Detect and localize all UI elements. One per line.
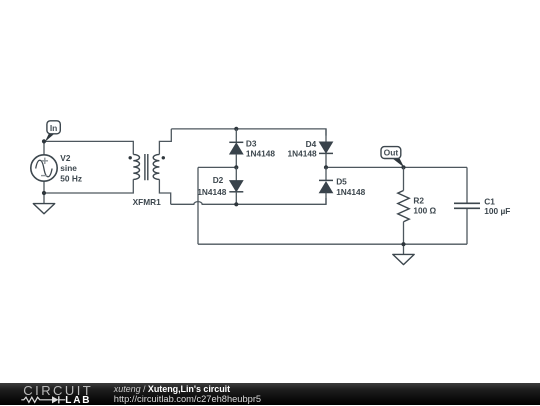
- wire C1 bottom lead: [466, 209, 468, 245]
- label C1: [484, 196, 510, 216]
- wire top rail: [171, 129, 326, 136]
- diode D5: [319, 167, 333, 204]
- wire secondary bottom: [159, 179, 170, 204]
- core lines: [145, 154, 148, 180]
- node dot source bottom: [42, 191, 46, 195]
- diode D4: [319, 129, 333, 168]
- svg-text:In: In: [50, 123, 58, 133]
- diode D3: [229, 129, 243, 168]
- wire bottom primary: [44, 179, 133, 193]
- wire ground right stub: [403, 244, 405, 254]
- svg-text:V2: V2: [60, 153, 71, 163]
- circuitlab logo: [23, 384, 93, 397]
- wire mid right: [326, 166, 467, 168]
- label D4: [288, 139, 317, 158]
- wire secondary top: [159, 129, 171, 155]
- label R2: [413, 195, 436, 215]
- diode D2: [229, 167, 243, 204]
- wire mid left: [198, 166, 236, 168]
- primary coil: [133, 154, 139, 179]
- transformer dot primary: [129, 156, 132, 159]
- node In flag: [45, 121, 60, 142]
- label D2: [197, 175, 226, 197]
- wire top primary: [44, 141, 133, 154]
- wire bottom bridge rail with hop: [171, 198, 326, 204]
- node dot top rail: [234, 127, 238, 131]
- svg-text:R2: R2: [413, 195, 424, 205]
- secondary coil: [153, 154, 159, 179]
- voltage source V2: [31, 155, 57, 181]
- svg-text:1N4148: 1N4148: [288, 148, 317, 158]
- label D5: [336, 177, 365, 197]
- svg-text:100 µF: 100 µF: [484, 206, 510, 216]
- svg-text:50 Hz: 50 Hz: [60, 173, 82, 183]
- svg-text:D3: D3: [246, 138, 257, 148]
- svg-text:XFMR1: XFMR1: [133, 197, 162, 207]
- transformer dot secondary: [162, 156, 165, 159]
- svg-text:sine: sine: [60, 163, 77, 173]
- node dot In: [42, 139, 46, 143]
- svg-text:100 Ω: 100 Ω: [413, 205, 436, 215]
- ground right: [393, 254, 414, 264]
- svg-text:D2: D2: [213, 175, 224, 185]
- svg-text:1N4148: 1N4148: [336, 187, 365, 197]
- wire cross vertical: [197, 167, 199, 244]
- node dot mid left: [234, 165, 238, 169]
- svg-text:D5: D5: [336, 177, 347, 187]
- wire source top lead: [43, 141, 45, 155]
- label V2 value: [60, 153, 82, 183]
- label D3: [246, 138, 275, 158]
- node Out flag: [381, 147, 404, 168]
- transformer XFMR1: [133, 154, 159, 180]
- ground left: [33, 204, 54, 214]
- node dot mid right: [324, 165, 328, 169]
- capacitor C1: [454, 203, 480, 208]
- node dot Out: [401, 165, 405, 169]
- svg-text:1N4148: 1N4148: [197, 187, 226, 197]
- node dot bottom: [401, 242, 405, 246]
- wire bottom rail: [198, 243, 467, 245]
- footer bar: [0, 383, 540, 405]
- svg-text:Out: Out: [384, 148, 399, 158]
- svg-text:1N4148: 1N4148: [246, 148, 275, 158]
- resistor R2: [398, 167, 409, 244]
- wire source bottom lead: [43, 181, 45, 204]
- svg-text:C1: C1: [484, 196, 495, 206]
- wire C1 top lead: [466, 167, 468, 203]
- node dot bottom rail: [234, 202, 238, 206]
